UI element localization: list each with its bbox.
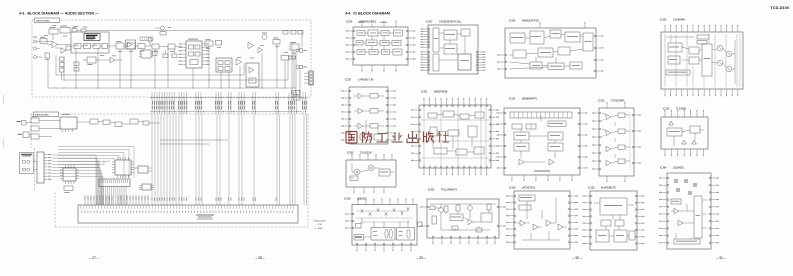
IC314 op-amp 1 — [519, 159, 524, 165]
IC364 internal wires — [671, 210, 674, 212]
IC303 internal resistor — [350, 176, 358, 181]
IC308 pins right — [596, 35, 600, 37]
IC310 pins right — [634, 114, 638, 116]
IC301 pins right — [491, 109, 496, 111]
IC308 outline — [505, 28, 596, 78]
svg-text:CXK58257BTM-10LL: CXK58257BTM-10LL — [439, 20, 462, 23]
svg-text:IC204: IC204 — [346, 20, 353, 23]
IC307 address buffer column — [433, 28, 439, 52]
IC331 internal wires — [682, 130, 690, 132]
IC301 interior feedthrough wires — [423, 107, 425, 166]
svg-text:IC314: IC314 — [509, 97, 516, 100]
attenuator block — [40, 39, 47, 44]
line amp block row — [116, 43, 124, 49]
pb eq op-amp IC604 — [236, 59, 242, 65]
IC302 internal wires — [440, 204, 442, 208]
remote sensor component on border — [17, 121, 21, 122]
IC328 ref block 2 — [519, 205, 531, 210]
IC207 internal amp 3 — [358, 123, 363, 128]
IC204 outline — [353, 27, 408, 65]
IC204 pins right — [408, 30, 412, 32]
upper small blocks row — [90, 119, 98, 124]
sdata block 2 — [216, 41, 222, 46]
IC301 outline — [419, 105, 491, 168]
svg-text:IC207: IC207 — [345, 78, 352, 81]
line out op-amp IC605 — [248, 42, 254, 48]
IC364 driver array tall rect — [694, 196, 702, 238]
svg-text:IC328: IC328 — [509, 186, 516, 189]
IC329 internal wires — [612, 215, 614, 220]
top block wire branch verticals — [75, 49, 77, 89]
IC314 driver pair right — [548, 132, 563, 140]
IC308 internal filter block — [538, 48, 553, 57]
IC307 decoder block — [461, 29, 470, 36]
line out jack J604 — [296, 49, 299, 52]
mid small caps — [163, 54, 168, 58]
svg-text:IC331: IC331 — [663, 107, 670, 110]
IC305 osc block — [354, 235, 364, 241]
svg-text:– 27 –: – 27 – — [89, 256, 99, 260]
left margin pencil mark 1 — [3, 95, 4, 103]
mic jack J601 — [34, 40, 37, 43]
svg-text:TCD-D100: TCD-D100 — [770, 5, 789, 10]
IC302 transistor 1 — [439, 208, 444, 213]
IC307 pins right — [478, 51, 482, 53]
IC329 logic block — [600, 198, 627, 215]
upper row wires — [77, 121, 90, 123]
IC329 small right block — [629, 231, 635, 240]
top block main signal wire upper — [92, 30, 302, 32]
attenuator ladder chain — [60, 57, 65, 61]
IC207 internal wires — [354, 95, 358, 97]
digital io connector block — [37, 152, 44, 183]
IC328 op-amp C — [546, 220, 551, 226]
post dac lpf block — [87, 57, 96, 63]
IC303 pins top — [351, 157, 353, 160]
line amp block 3 — [138, 44, 145, 49]
IC307 pins left group2 — [424, 51, 428, 53]
IC308 internal memory block — [583, 33, 593, 51]
sub cluster resistors — [74, 62, 79, 66]
IC302 top rail wire — [430, 203, 496, 205]
IC329 pins left — [586, 195, 590, 197]
aux IC right 1 — [138, 166, 148, 173]
opt out jack symbol row 2 — [23, 168, 26, 171]
servo connector box CN303 — [99, 179, 130, 187]
switch cell row — [140, 37, 153, 40]
IC305 right edge connector — [418, 222, 423, 227]
IC204 pins bottom — [361, 65, 363, 69]
phones volume RV602 — [273, 40, 280, 45]
transistor pair top mid — [161, 26, 165, 30]
IC314 bottom center label — [534, 171, 550, 172]
IC305 driver sub-box B — [397, 228, 415, 241]
IC306 gain control rect tall — [702, 44, 712, 76]
IC306 interior vertical feedthrough wires — [664, 34, 666, 87]
IC328 pins right — [570, 195, 575, 197]
IC207 outline — [349, 87, 388, 144]
IC314 driver pair left — [514, 132, 529, 140]
output caps cluster — [283, 31, 288, 35]
analog sw box — [216, 58, 232, 72]
main board lower label — [34, 112, 59, 117]
svg-text:IC308: IC308 — [509, 19, 516, 22]
op-amp box mid — [126, 40, 136, 49]
syscon QFP IC202 — [115, 160, 131, 175]
IC308 internal row3 — [530, 62, 542, 69]
IC301 internal blocks — [428, 113, 437, 118]
digital filter DAC IC602 label box — [84, 34, 100, 41]
IC301 pins left — [415, 109, 420, 111]
IC314 outline — [504, 108, 580, 175]
line out jack block — [290, 44, 299, 50]
IC328 op-amp A — [520, 220, 525, 226]
svg-text:IC307: IC307 — [426, 20, 433, 23]
small box next to 8-pin — [153, 51, 158, 56]
dac sub block 4 — [102, 44, 108, 49]
8-pin IC mid — [141, 50, 151, 58]
headphone transistor Q602 — [262, 35, 267, 40]
IC308 internal wires — [525, 37, 530, 39]
svg-text:* Signal path: * Signal path — [313, 220, 326, 223]
IC307 memory array block — [444, 30, 457, 40]
bottom connector center text — [196, 215, 214, 216]
svg-text:IC310: IC310 — [598, 99, 605, 102]
battery terminal box — [23, 132, 29, 138]
IC204 internal wires — [365, 32, 368, 34]
mic jack J602 — [34, 47, 37, 50]
upper-left connectors row — [31, 118, 39, 123]
IC308 internal adc block — [530, 31, 544, 44]
IC310 stage 3 op-amp — [606, 146, 611, 151]
svg-text:MAIN BOARD: MAIN BOARD — [36, 20, 50, 23]
IC207 internal amp 1 — [358, 93, 363, 98]
IC308 internal out amp — [513, 50, 526, 58]
IC302 error amp — [468, 219, 473, 224]
svg-text:TK11821M: TK11821M — [360, 151, 372, 154]
IC329 switch block B — [614, 230, 627, 242]
IC305 outline — [352, 205, 417, 246]
IC204 internal block row3 — [357, 50, 365, 55]
svg-text:MB90F583B: MB90F583B — [434, 90, 448, 93]
svg-text:LB1880D1: LB1880D1 — [673, 166, 685, 169]
IC307 memory array block 2 — [444, 44, 457, 54]
IC328 op-amp B — [533, 224, 538, 230]
IC364 tsd block — [671, 199, 681, 204]
svg-text:– 28 –: – 28 – — [255, 256, 265, 260]
servo connector fan-down wires — [101, 187, 103, 206]
IC302 pins bottom — [432, 238, 434, 241]
IC207 internal amp 2 — [358, 108, 363, 113]
dac sub block 1 — [74, 44, 81, 49]
IC310 pins left — [596, 112, 600, 114]
mic amp op-amp IC601a — [52, 41, 58, 47]
dac sub block 2 — [84, 44, 91, 49]
IC314 control block — [548, 121, 566, 127]
IC207 internal block bottom — [360, 134, 370, 140]
IC364 input transistor mesh — [674, 179, 677, 182]
IC302 extra resistors — [444, 206, 448, 212]
IC308 internal dsp block — [565, 32, 580, 42]
IC204 pins left — [349, 30, 353, 32]
adc input filter block — [66, 46, 71, 50]
bottom connector pin ticks — [80, 205, 82, 209]
IC307 address buffer column lower — [433, 54, 439, 71]
svg-text:– 31 –: – 31 – — [716, 256, 726, 260]
IC306 mid block 1 — [689, 47, 699, 54]
svg-text:IC364: IC364 — [660, 166, 667, 169]
svg-text:BU4053BCFV: BU4053BCFV — [601, 186, 616, 189]
small box pair left of jacks — [289, 56, 292, 59]
IC306 mid block 2 — [689, 57, 699, 64]
IC328 pins left — [510, 195, 515, 197]
digital interface connector pins fan — [52, 154, 96, 156]
main board dashed border (top block) — [32, 20, 311, 97]
IC301 pins bottom — [423, 168, 425, 172]
rec/pb switch block — [246, 63, 259, 87]
crystal X201 box — [64, 186, 73, 191]
adc sub blocks — [189, 45, 194, 49]
IC310 right vertical bus — [629, 112, 631, 170]
IC329 outline — [590, 191, 637, 250]
IC308 internal dac block — [558, 47, 570, 55]
limiter block — [60, 28, 70, 34]
bus band vertical drops — [151, 92, 153, 114]
IC307 internal wires — [439, 32, 444, 34]
IC305 pins top — [357, 202, 359, 205]
main board label — [35, 18, 60, 23]
IC306 output transistor 3 — [717, 60, 723, 66]
wire labels above bottom connector — [84, 195, 86, 205]
input select switch S601 — [45, 53, 50, 58]
IC301 internal wires — [437, 114, 443, 115]
line in jack J603 — [34, 56, 37, 59]
IC310 outline — [599, 108, 634, 176]
IC364 bottom logic block — [674, 239, 700, 244]
IC302 resistor left — [432, 216, 437, 224]
svg-text:MB3884APFV: MB3884APFV — [522, 97, 538, 100]
IC307 outline — [428, 25, 478, 74]
svg-text:IC305: IC305 — [344, 197, 351, 200]
wire input chain — [40, 41, 52, 43]
IC308 pin top right corner — [584, 25, 586, 28]
IC204 pins top — [361, 24, 363, 28]
buffer block mid — [168, 44, 175, 49]
IC314 pins right — [580, 112, 584, 114]
connector ladder CN601 — [309, 71, 314, 85]
main board dashed border (bottom block) — [31, 113, 308, 115]
svg-text:4-3. BLOCK DIAGRAM — AUDIO SE: 4-3. BLOCK DIAGRAM — AUDIO SECTION — — [19, 12, 99, 16]
svg-text:M65831AFP-E2: M65831AFP-E2 — [522, 19, 540, 22]
lower block horizontal link wires — [160, 139, 228, 141]
IC306 osc block — [668, 56, 680, 64]
svg-text:LA4609N-TJM: LA4609N-TJM — [358, 78, 373, 81]
aux IC right 2 — [142, 184, 151, 190]
IC306 bias block — [668, 43, 682, 52]
IC307 pins left group1 — [424, 28, 428, 30]
IC306 top small blocks — [697, 35, 709, 39]
line out jack symbol row 1 — [23, 161, 26, 164]
IC306 output transistor 1 — [717, 45, 723, 51]
sdata interface block — [205, 41, 213, 46]
bottom connector bar CN301 — [78, 205, 298, 223]
bus band junction dots — [152, 97, 153, 98]
top block wire lower bus — [48, 87, 296, 89]
IC306 output transistor 4 — [726, 66, 732, 72]
IC204 internal block row1 — [357, 31, 365, 36]
mic amp op-amp IC601b — [61, 48, 66, 53]
IC302 pins sides — [424, 206, 428, 208]
IC331 triangles — [669, 121, 674, 125]
IC364 amp triangle 1 — [674, 208, 679, 213]
IC314 internal wires — [520, 140, 522, 143]
IC314 pins left — [500, 112, 504, 114]
top block wire feedback 1 — [56, 74, 244, 76]
IC314 register row — [510, 112, 572, 118]
red stamp watermark GuoFangGongYeChuBanShe — [346, 132, 449, 144]
IC308 internal clock block — [550, 30, 561, 38]
dac sub block 3 — [93, 44, 100, 49]
meter drive block — [152, 44, 159, 49]
IC305 pins bottom — [356, 245, 358, 248]
IC305 internal wires — [361, 218, 363, 224]
IC303 internal regulator block — [379, 169, 390, 176]
IC331 pins top — [664, 113, 666, 117]
IC331 pins bottom — [664, 149, 666, 153]
svg-text:– 30 –: – 30 – — [572, 256, 582, 260]
svg-text:MAIN BOARD: MAIN BOARD — [35, 114, 49, 117]
IC303 outline — [346, 160, 396, 187]
IC305 left small block — [356, 224, 362, 229]
board border between jack and connector — [34, 148, 36, 190]
IC328 ref block 1 — [519, 195, 535, 201]
IC302 extra caps — [430, 206, 435, 210]
right edge wire labels — [290, 90, 293, 93]
top block junction dots — [55, 87, 56, 88]
IC302 extra wires — [445, 212, 447, 214]
IC314 pins bottom — [511, 175, 513, 178]
svg-text:IC301: IC301 — [421, 90, 428, 93]
svg-text:IC303: IC303 — [347, 151, 354, 154]
svg-text:μPC4574G2: μPC4574G2 — [522, 186, 536, 189]
IC302 output block — [481, 213, 492, 222]
IC310 pins top and bottom — [606, 105, 608, 108]
jack board header label — [21, 154, 32, 155]
line amp block 2 — [127, 43, 135, 49]
IC331 vref block — [667, 128, 682, 136]
sub IC block upper — [60, 117, 77, 129]
IC308 internal input amp block — [510, 33, 525, 43]
IC364 amp triangle 2 — [678, 220, 683, 225]
svg-text:– 29 –: – 29 – — [416, 256, 426, 260]
rec level pot RV601 — [49, 29, 58, 34]
IC328 internal wires — [517, 222, 520, 224]
IC310 internal feedback wires — [602, 113, 606, 115]
svg-text:→ : PB: → : PB — [315, 224, 322, 226]
digital filter group box — [71, 32, 109, 53]
IC307 io control block — [458, 54, 471, 70]
svg-text:4-4. IC BLOCK DIAGRAM: 4-4. IC BLOCK DIAGRAM — [345, 12, 390, 16]
IC204 internal block row2 — [356, 41, 363, 46]
fan wires from connector list — [58, 146, 134, 148]
svg-text:IC329: IC329 — [588, 186, 595, 189]
IC303 internal wires — [351, 163, 353, 172]
IC306 output transistor 2 — [726, 51, 732, 57]
phones amp block — [281, 56, 289, 61]
IC305 driver sub-box A — [371, 228, 395, 241]
bus band wire 2 — [150, 111, 302, 113]
IC314 op-amp 2 — [549, 159, 554, 165]
IC331 outline — [661, 117, 708, 149]
resistor R603 — [81, 29, 86, 32]
svg-text:TA75S558FL: TA75S558FL — [611, 99, 626, 102]
jack board box — [20, 153, 34, 174]
post dac op-amp — [110, 57, 115, 62]
IC364 pins right — [711, 177, 716, 179]
top component value labels — [44, 34, 48, 37]
bottom connector pin labels — [81, 211, 84, 214]
bus band wire 1 — [150, 97, 302, 99]
line out op-amp IC606 — [258, 47, 263, 52]
IC303 pins bottom — [353, 187, 355, 190]
adc IC603 block — [186, 41, 202, 68]
IC306 internal wires — [682, 47, 689, 49]
IC305 transistor mesh top — [361, 210, 364, 213]
bus band right edge component stack — [293, 91, 300, 95]
IC301 pins top — [423, 101, 425, 105]
wire dac chain — [71, 45, 74, 47]
IC364 pins left — [663, 177, 668, 179]
IC308 pins left — [501, 54, 506, 56]
wire lpf — [83, 59, 87, 61]
IC329 switch block A — [596, 230, 609, 242]
IC306 pins top — [664, 28, 666, 32]
IC302 outline — [427, 199, 499, 238]
phones jack J605 — [296, 65, 299, 68]
IC207 pins left — [345, 90, 350, 92]
IC310 stage 4 op-amp — [606, 160, 611, 165]
IC310 stage 2 op-amp — [606, 130, 611, 135]
IC364 outline — [667, 173, 711, 249]
lower block long vertical wires — [151, 115, 153, 206]
IC207 pins right — [388, 90, 393, 92]
IC328 op-amp D — [558, 224, 563, 230]
left margin pencil mark 2 — [3, 139, 4, 147]
svg-text:IC306: IC306 — [660, 18, 667, 21]
svg-text:CXA8049N: CXA8049N — [673, 18, 685, 21]
IC329 pins right — [637, 195, 641, 197]
bus band signal-name labels — [151, 101, 154, 105]
small cap C601 — [72, 29, 77, 33]
IC305 pins left — [349, 213, 353, 215]
right edge vertical wires — [291, 42, 293, 97]
IC303 transistor Q1 — [354, 169, 360, 175]
IC314 small blocks — [512, 124, 522, 129]
svg-text:TK11245BM-TL: TK11245BM-TL — [441, 188, 458, 191]
IC329 sub blocks — [601, 220, 611, 226]
IC328 outline — [514, 191, 570, 249]
IC303 transistor Q2 — [368, 165, 374, 171]
IC305 mesh link wires — [356, 210, 408, 212]
IC306 pins bottom — [664, 89, 666, 93]
IC306 outline — [661, 32, 743, 89]
IC302 transistor 2 — [468, 206, 473, 211]
svg-text:IC302: IC302 — [428, 188, 435, 191]
mute transistor Q601 — [148, 38, 152, 42]
wire row — [124, 45, 127, 47]
IC331 comp block — [690, 126, 700, 133]
svg-text:⇒ : REC: ⇒ : REC — [315, 227, 324, 230]
